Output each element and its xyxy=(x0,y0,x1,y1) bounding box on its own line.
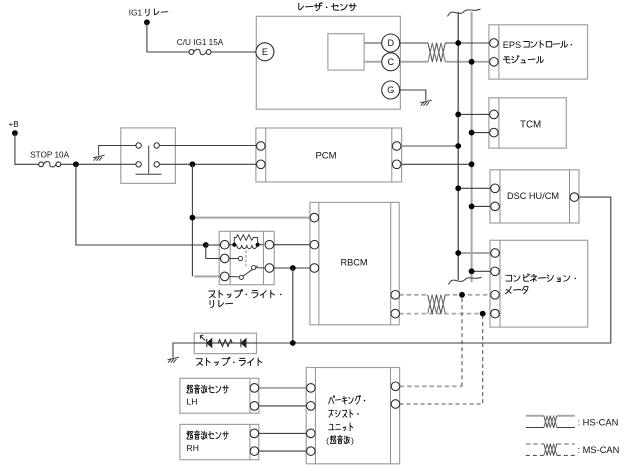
wire stop-light relay out to RBCM pin2 xyxy=(274,244,310,246)
module box ultrasonic sensor LH xyxy=(180,378,259,413)
wire TCM pin2 xyxy=(472,132,490,134)
wires ultrasonic RH pin1 xyxy=(259,432,306,434)
wire ground to relay coil pin xyxy=(99,146,139,156)
relay switch contacts xyxy=(229,256,265,279)
label ultrasonic sensor RH xyxy=(187,431,229,440)
module box parking assist unit xyxy=(306,368,399,464)
component box stop light xyxy=(194,333,256,353)
wire net B vertical xyxy=(191,164,193,217)
module box TCM xyxy=(489,98,566,148)
svg-text:IG1: IG1 xyxy=(129,9,143,18)
junction dot bus PCM1 xyxy=(455,143,461,149)
pins TCM xyxy=(490,110,499,119)
junction dots relay coil xyxy=(232,243,236,247)
wire DSC pin2 xyxy=(472,205,490,207)
wire combination meter pin1 (gray) xyxy=(458,252,490,254)
svg-text:TCM: TCM xyxy=(520,119,541,130)
wire stop light to DSC HU/CM xyxy=(257,197,611,343)
pin D laser sensor xyxy=(382,34,400,52)
wire STOP fuse to relay xyxy=(61,163,139,165)
junction dot bus DSC1 xyxy=(455,185,461,191)
junction dot bus PCM2 xyxy=(469,161,475,167)
wire branch to relay coil pin xyxy=(206,244,221,246)
wire laser G to ground xyxy=(400,90,426,101)
junction dot bus meter2 xyxy=(469,268,475,274)
svg-text:PCM: PCM xyxy=(315,151,336,162)
pin E laser sensor xyxy=(256,43,274,61)
svg-text:: HS-CAN: : HS-CAN xyxy=(578,417,619,427)
stop-light relay coil circuit xyxy=(229,235,263,249)
junction dot PCM feed branch xyxy=(190,161,196,167)
pins parking assist xyxy=(307,384,316,393)
wire relay common pin xyxy=(225,275,240,278)
pins ultrasonic RH xyxy=(250,429,259,438)
junction dot stop light branch xyxy=(290,265,296,271)
pin G laser sensor xyxy=(382,81,400,99)
junction dot net B to RBCM xyxy=(190,215,196,221)
module box EPS control module xyxy=(489,25,588,79)
wire laser inner unit to C (gray) xyxy=(364,61,382,63)
pins PCM xyxy=(257,142,266,151)
svg-text:C/U IG1 15A: C/U IG1 15A xyxy=(177,38,224,47)
wire ultrasonic LH pin1 to parking assist (gray) xyxy=(259,387,306,389)
relay contacts main relay xyxy=(136,146,162,175)
dashed wire parking assist pin5 up to MS-CAN xyxy=(461,295,463,387)
pins RBCM xyxy=(310,213,319,222)
wire IG1 relay feed down xyxy=(144,19,150,25)
module box combination meter xyxy=(490,240,588,327)
ground symbol laser sensor xyxy=(420,100,432,105)
module box RBCM xyxy=(310,202,399,324)
relay actuator dashed link xyxy=(245,251,247,267)
module box PCM xyxy=(256,128,402,182)
pins ultrasonic LH xyxy=(250,384,259,393)
label stop light xyxy=(196,357,261,365)
relay box (main relay with STOP fuse feed) xyxy=(121,128,176,183)
module box DSC HU/CM xyxy=(490,170,579,223)
svg-text:: MS-CAN: : MS-CAN xyxy=(578,445,620,455)
legend MS-CAN sample xyxy=(526,443,544,445)
wires ultrasonic RH pin2 xyxy=(259,450,306,452)
junction dot stop light to RBCM xyxy=(290,340,296,346)
wire PCM pin1 to HS-CAN bus (gray) xyxy=(400,145,458,147)
pins EPS module xyxy=(490,39,499,48)
wire relay to PCM pin1 xyxy=(159,145,256,147)
stop light internal circuit xyxy=(194,335,256,347)
label combination meter xyxy=(506,274,576,282)
label stop-light relay xyxy=(209,290,282,298)
svg-text:): ) xyxy=(351,436,354,446)
pins stop-light relay xyxy=(220,240,229,249)
module box laser sensor xyxy=(256,16,400,109)
svg-text:RH: RH xyxy=(187,443,199,453)
svg-text:G: G xyxy=(387,85,394,95)
relay box stop-light relay xyxy=(219,231,274,284)
label ultrasonic sensor LH xyxy=(187,385,229,394)
HS-CAN bus line H (left, dark) xyxy=(457,12,459,280)
HS-CAN bus line L (right, gray) xyxy=(471,12,473,282)
wire PCM pin2 to bus xyxy=(400,163,472,165)
svg-text:RBCM: RBCM xyxy=(340,258,367,268)
svg-text:EPS: EPS xyxy=(503,40,521,50)
junction dot bus DSC2 xyxy=(469,204,475,210)
pins combination meter xyxy=(491,249,500,258)
inner unit box of laser sensor xyxy=(328,34,364,70)
svg-text:LH: LH xyxy=(187,397,198,407)
svg-text:(: ( xyxy=(326,436,329,446)
wire fuse to laser pin E xyxy=(211,51,256,53)
pin C laser sensor xyxy=(382,53,400,71)
MS-CAN dashed line RBCM pin5 to meter pin4 (gray) xyxy=(399,313,490,315)
wire DSC right pin stub xyxy=(579,196,583,198)
wire relay to PCM pin2 xyxy=(159,163,256,165)
junction dot bus TCM2 xyxy=(469,130,475,136)
pins DSC xyxy=(491,184,500,193)
wire branch to relay NC pin xyxy=(206,245,221,259)
fuse C/U IG1 15A xyxy=(189,50,194,55)
wire STOP feed down to stop-light relay xyxy=(76,164,206,245)
wire net B to RBCM pin1 (gray) xyxy=(194,217,310,219)
legend HS-CAN sample xyxy=(526,415,544,417)
dashed wire parking assist pin6 xyxy=(400,314,483,404)
svg-text:+B: +B xyxy=(9,120,20,129)
junction dot stop-light relay feed xyxy=(203,242,209,248)
MS-CAN twisted pair symbol xyxy=(428,295,446,314)
wires ultrasonic LH pin2 xyxy=(259,405,306,407)
wire stop-light relay switch out to RBCM pin3 xyxy=(274,267,310,269)
wire DSC pin1 xyxy=(458,187,490,189)
wire +B down and to STOP fuse xyxy=(12,130,18,136)
wire down to stop light line xyxy=(292,268,294,343)
label laser sensor xyxy=(299,3,357,11)
dashed wire parking assist pin5 stub (gray) xyxy=(400,385,462,387)
wire laser inner unit to D (dark) xyxy=(364,42,382,44)
junction dot MS-CAN top xyxy=(459,292,465,298)
ground symbol main relay xyxy=(93,155,105,160)
fuse STOP 10A xyxy=(39,162,44,167)
svg-text:D: D xyxy=(387,38,394,48)
junction dot bus D line xyxy=(455,40,461,46)
ground symbol stop light xyxy=(168,357,180,362)
wire net B to stop-light relay pin3 (gray) xyxy=(194,275,220,277)
wire TCM pin1 xyxy=(458,113,490,115)
label parking assist unit xyxy=(329,396,366,405)
svg-text:E: E xyxy=(262,47,268,57)
bus break symbol top xyxy=(448,9,481,17)
junction dot STOP fuse output xyxy=(73,161,79,167)
junction dot bus C line xyxy=(469,59,475,65)
wire laser C to EPS pin2 (gray, CAN-L) xyxy=(400,61,428,63)
svg-text:C: C xyxy=(387,57,394,67)
wire combination meter pin2 xyxy=(472,270,490,272)
wire laser D to EPS pin1 (dark, CAN-H) xyxy=(400,42,428,44)
svg-text:DSC HU/CM: DSC HU/CM xyxy=(507,191,559,201)
MS-CAN dashed line RBCM pin4 to meter pin3 (gray) xyxy=(399,294,428,296)
wire stop light to ground xyxy=(173,343,194,358)
junction dot MS-CAN bottom xyxy=(480,311,486,317)
module box ultrasonic sensor RH xyxy=(180,424,259,459)
junction dot bus meter1 xyxy=(455,250,461,256)
bus break symbol bottom xyxy=(449,277,482,285)
HS-CAN twisted pair symbol top xyxy=(428,43,445,62)
junction dot bus TCM1 xyxy=(455,112,461,118)
svg-text:STOP 10A: STOP 10A xyxy=(30,150,69,159)
